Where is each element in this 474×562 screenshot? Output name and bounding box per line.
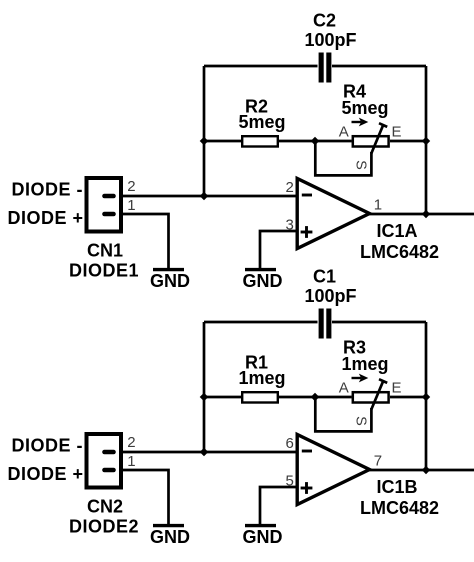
ground symbol (non-inverting input): [245, 268, 276, 271]
connector CN1 pin 1 stub: [105, 212, 114, 217]
trimmer potentiometer R3 1meg body: [353, 392, 389, 402]
wire: CN1 pin 2 to op-amp inverting input: [123, 195, 296, 198]
svg-text:DIODE -: DIODE -: [11, 436, 83, 456]
wire: op-amp output to right edge: [370, 213, 474, 216]
svg-text:E: E: [391, 124, 401, 141]
trimmer R3 adjust arrow: [352, 374, 369, 383]
wire: resistor R1 to trimmer R3: [279, 396, 352, 399]
resistor R2 5meg: [242, 136, 278, 146]
wire: trimmer R3 E terminal to right rail: [390, 396, 426, 399]
trimmer R4 wiper end bar: [379, 123, 387, 127]
svg-text:6: 6: [286, 435, 294, 452]
svg-text:2: 2: [286, 179, 294, 196]
ground symbol (diode return): [153, 524, 184, 527]
op-amp IC1A non-inverting (+) mark: [301, 226, 313, 238]
svg-text:3: 3: [286, 216, 294, 233]
connector CN2 body: [87, 434, 122, 488]
trimmer R4 adjust arrow: [352, 118, 369, 127]
svg-text:C1: C1: [313, 267, 336, 287]
junction: node A of R4: [311, 137, 320, 146]
svg-text:100pF: 100pF: [304, 30, 356, 50]
wire: feedback top rail (IC1A) left of C2: [204, 65, 318, 68]
svg-text:IC1B: IC1B: [377, 477, 418, 497]
svg-text:5meg: 5meg: [341, 98, 388, 118]
svg-text:GND: GND: [150, 527, 190, 547]
svg-text:DIODE -: DIODE -: [11, 180, 83, 200]
svg-text:5: 5: [286, 472, 294, 489]
svg-text:A: A: [339, 124, 349, 141]
ground symbol (diode return): [153, 268, 184, 271]
svg-text:100pF: 100pF: [304, 286, 356, 306]
wire: left vertical rail from top rail to inverting input node: [203, 322, 206, 452]
junction: right rail / R3 E: [422, 393, 430, 401]
svg-text:7: 7: [374, 453, 382, 470]
junction: output node: [422, 466, 430, 474]
junction: inverting input node: [200, 192, 209, 201]
junction: node A of R3: [311, 393, 320, 402]
wire: CN2 pin 1 to ground: [123, 470, 169, 524]
wire: feedback top rail (IC1B) left of C1: [204, 321, 318, 324]
svg-text:5meg: 5meg: [238, 112, 285, 132]
op-amp IC1B non-inverting (+) mark: [301, 482, 313, 494]
svg-text:LMC6482: LMC6482: [360, 498, 439, 518]
op-amp IC1A inverting (-) mark: [302, 194, 312, 197]
svg-text:E: E: [391, 380, 401, 397]
svg-text:CN2: CN2: [87, 496, 123, 516]
svg-text:S: S: [353, 416, 369, 426]
svg-text:CN1: CN1: [87, 240, 123, 260]
op-amp IC1B inverting (-) mark: [302, 450, 312, 453]
wire: op-amp non-inverting input to ground: [260, 231, 296, 268]
trimmer R3 wiper arm: [371, 381, 383, 410]
wire: op-amp non-inverting input to ground: [260, 487, 296, 524]
svg-text:LMC6482: LMC6482: [360, 242, 439, 262]
svg-text:DIODE1: DIODE1: [69, 260, 139, 280]
svg-text:2: 2: [127, 434, 135, 451]
svg-text:1meg: 1meg: [238, 368, 285, 388]
svg-text:GND: GND: [243, 527, 283, 547]
wire: left rail to resistor R1: [204, 396, 241, 399]
ground symbol (non-inverting input): [245, 524, 276, 527]
junction: output node: [422, 210, 430, 218]
wire: trimmer R4 E terminal to right rail: [390, 140, 426, 143]
svg-text:2: 2: [127, 178, 135, 195]
capacitor C1 100pF: [319, 309, 332, 339]
trimmer potentiometer R4 5meg body: [353, 136, 389, 146]
junction: left rail / R1: [200, 393, 209, 402]
junction: inverting input node: [200, 448, 209, 457]
capacitor C2 100pF: [319, 53, 332, 83]
connector CN1 pin 2 stub: [105, 194, 114, 199]
svg-text:S: S: [353, 160, 369, 170]
svg-text:1meg: 1meg: [341, 354, 388, 374]
svg-text:DIODE +: DIODE +: [7, 464, 83, 484]
wire: right vertical rail from top rail to output node: [425, 66, 428, 214]
svg-text:1: 1: [127, 453, 135, 470]
connector CN2 pin 2 stub: [105, 450, 114, 455]
wire: feedback top rail (IC1A) right of C2: [332, 65, 426, 68]
svg-text:GND: GND: [150, 271, 190, 291]
trimmer R3 wiper end bar: [379, 379, 387, 383]
svg-text:1: 1: [127, 197, 135, 214]
connector CN1 body: [87, 178, 122, 232]
junction: left rail / R2: [200, 137, 209, 146]
wire: right vertical rail from top rail to output node: [425, 322, 428, 470]
trimmer R4 wiper arm: [371, 125, 383, 154]
svg-text:1: 1: [374, 197, 382, 214]
svg-text:DIODE +: DIODE +: [7, 208, 83, 228]
wire: op-amp output to right edge: [370, 469, 474, 472]
op-amp IC1B LMC6482 triangle: [297, 435, 369, 505]
wire: resistor R2 to trimmer R4: [279, 140, 352, 143]
wire: wiper S shorted back to node A (down, across, up): [315, 141, 371, 175]
wire: wiper S shorted back to node A (down, across, up): [315, 397, 371, 431]
svg-text:DIODE2: DIODE2: [69, 516, 139, 536]
wire: CN2 pin 2 to op-amp inverting input: [123, 451, 296, 454]
wire: CN1 pin 1 to ground: [123, 214, 169, 268]
resistor R1 1meg: [242, 392, 278, 402]
op-amp IC1A LMC6482 triangle: [297, 179, 369, 249]
wire: left vertical rail from top rail to inverting input node: [203, 66, 206, 196]
svg-text:GND: GND: [243, 271, 283, 291]
connector CN2 pin 1 stub: [105, 468, 114, 473]
junction: right rail / R4 E: [422, 137, 430, 145]
wire: left rail to resistor R2: [204, 140, 241, 143]
svg-text:C2: C2: [313, 11, 336, 31]
svg-text:A: A: [339, 380, 349, 397]
svg-text:IC1A: IC1A: [377, 221, 418, 241]
wire: feedback top rail (IC1B) right of C1: [332, 321, 426, 324]
